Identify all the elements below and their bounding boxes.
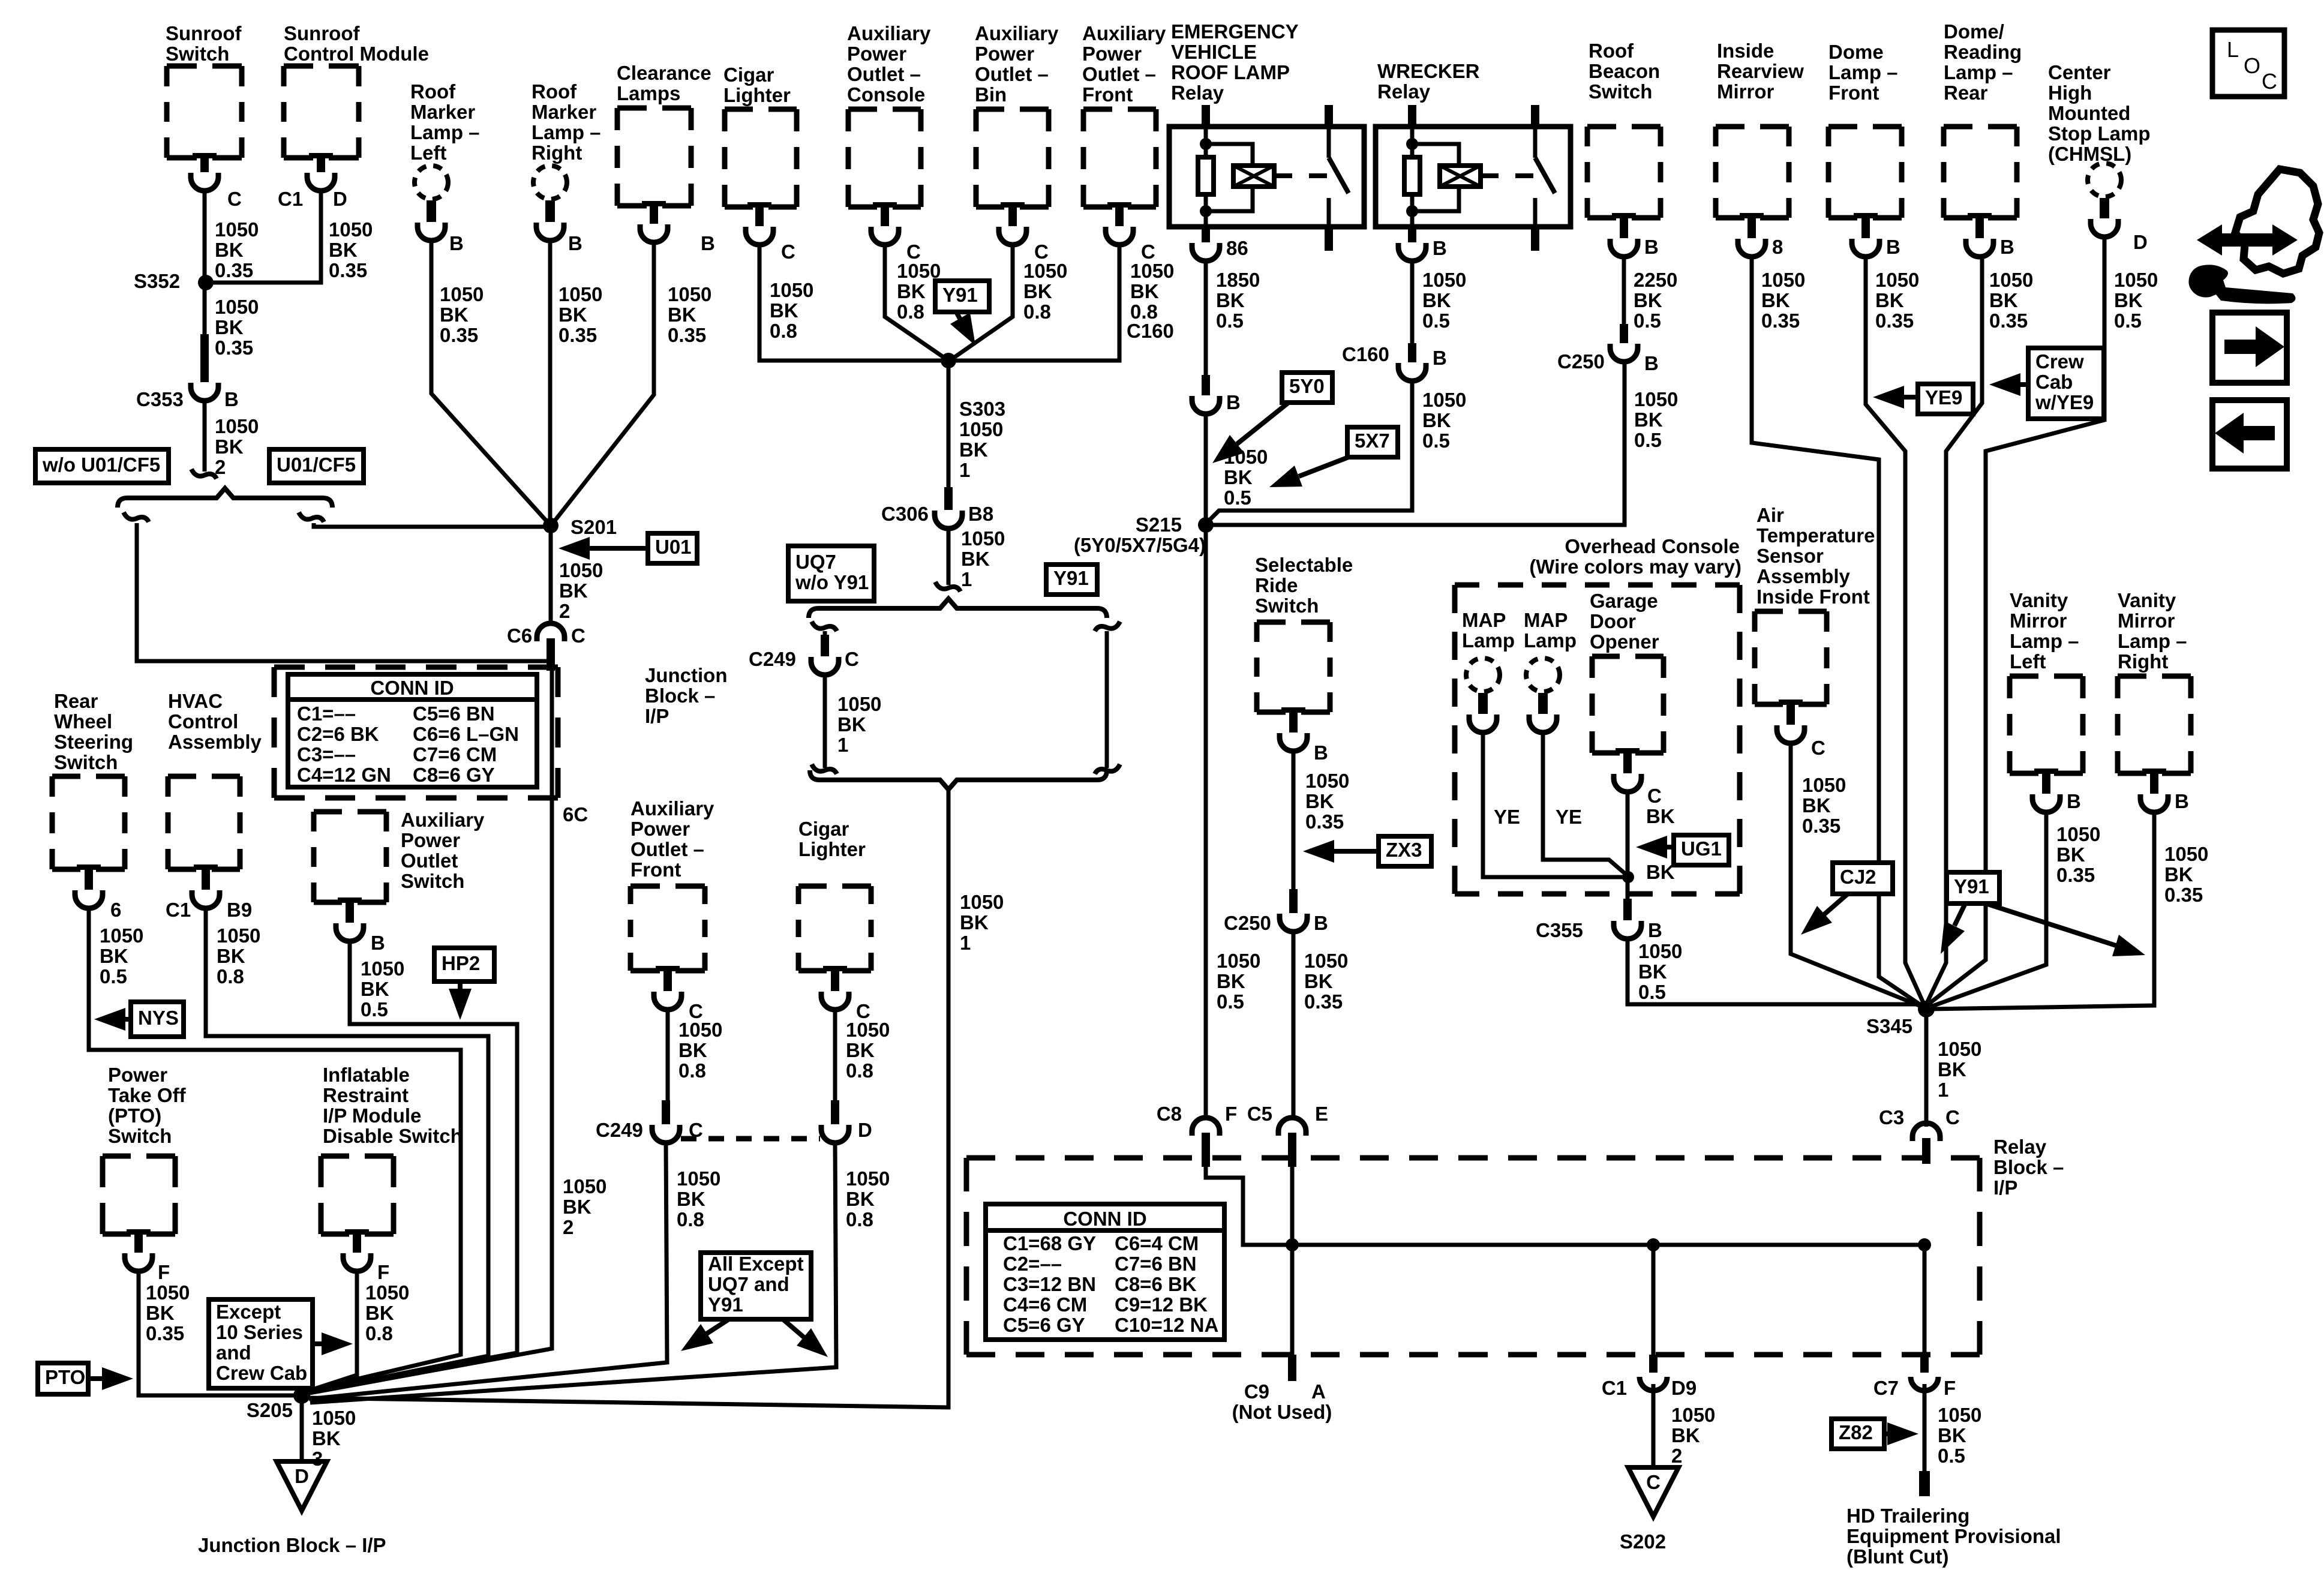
svg-text:C2=––: C2=–– <box>1003 1253 1062 1275</box>
svg-text:BK: BK <box>1875 289 1904 311</box>
svg-text:Lamp –: Lamp – <box>532 121 601 143</box>
svg-text:Y91: Y91 <box>942 284 978 306</box>
wire cigar lighter to S303 <box>759 245 947 361</box>
component Air Temperature Sensor Assembly Inside Front <box>1756 504 1875 608</box>
svg-text:1050: 1050 <box>215 218 259 241</box>
connector pin B wrecker relay <box>1398 227 1426 261</box>
connector pin B vanity mirror right <box>2140 769 2168 812</box>
svg-text:1050: 1050 <box>440 283 484 305</box>
svg-text:B: B <box>568 232 582 254</box>
svg-text:Sensor: Sensor <box>1756 545 1824 567</box>
svg-text:VEHICLE: VEHICLE <box>1171 41 1257 63</box>
svg-text:C3=––: C3=–– <box>297 743 356 766</box>
svg-text:Lamp –: Lamp – <box>410 121 480 143</box>
svg-text:MAP: MAP <box>1462 609 1506 631</box>
svg-text:0.5: 0.5 <box>1638 981 1666 1003</box>
svg-text:Switch: Switch <box>1589 80 1652 103</box>
svg-text:Control Module: Control Module <box>284 43 429 65</box>
svg-text:S352: S352 <box>134 270 180 292</box>
svg-text:1050: 1050 <box>329 218 373 241</box>
svg-text:Relay: Relay <box>1377 80 1431 103</box>
svg-text:Switch: Switch <box>401 870 464 892</box>
svg-text:Block –: Block – <box>645 685 715 707</box>
svg-text:BK: BK <box>2056 843 2085 866</box>
option label All Except UQ7 and Y91 with arrows <box>701 1253 811 1319</box>
svg-text:1050: 1050 <box>1304 950 1348 972</box>
svg-text:C7=6 BN: C7=6 BN <box>1115 1253 1197 1275</box>
wire garage door opener to C355 <box>1626 792 1630 899</box>
wire MAP lamp right to junction <box>1543 733 1626 875</box>
svg-text:C: C <box>1646 1471 1661 1493</box>
svg-text:C8=6 GY: C8=6 GY <box>413 764 495 786</box>
svg-text:Junction Block – I/P: Junction Block – I/P <box>198 1534 386 1556</box>
connector pin C aux power outlet front <box>1106 202 1133 245</box>
svg-text:C10=12 NA: C10=12 NA <box>1115 1314 1218 1336</box>
svg-text:C9=12 BK: C9=12 BK <box>1115 1293 1208 1316</box>
svg-text:BK: BK <box>563 1196 591 1218</box>
svg-text:Lamp: Lamp <box>1524 629 1577 652</box>
svg-text:0.5: 0.5 <box>1938 1445 1965 1467</box>
svg-text:1050: 1050 <box>1761 269 1805 291</box>
svg-text:CJ2: CJ2 <box>1840 866 1876 888</box>
connector pin B vanity mirror left <box>2032 769 2060 812</box>
svg-text:NYS: NYS <box>138 1007 179 1029</box>
svg-text:0.8: 0.8 <box>1023 301 1051 323</box>
component MAP Lamp left <box>1462 609 1515 652</box>
svg-text:Bin: Bin <box>975 83 1007 106</box>
component Cigar Lighter lower <box>798 818 866 860</box>
svg-text:BK: BK <box>440 304 469 326</box>
wire CHMSL to S345 <box>1925 237 2104 1007</box>
svg-text:1050: 1050 <box>846 1019 890 1041</box>
connector pin D CHMSL <box>2091 198 2118 237</box>
svg-text:BK: BK <box>1634 409 1663 431</box>
option split brace below C306 <box>935 582 960 592</box>
svg-text:B: B <box>1314 912 1328 934</box>
svg-text:Dome/: Dome/ <box>1944 20 2004 43</box>
svg-text:0.5: 0.5 <box>1216 310 1244 332</box>
component Garage Door Opener <box>1590 590 1659 653</box>
svg-text:Restraint: Restraint <box>323 1084 409 1106</box>
svg-text:Switch: Switch <box>1255 595 1319 617</box>
svg-text:0.35: 0.35 <box>329 259 367 281</box>
svg-text:BK: BK <box>146 1302 175 1324</box>
svg-text:Power: Power <box>975 43 1034 65</box>
svg-text:YE: YE <box>1556 806 1582 828</box>
svg-text:S205: S205 <box>247 1399 293 1421</box>
svg-text:Overhead Console: Overhead Console <box>1565 535 1740 557</box>
splice S215 <box>1198 517 1214 533</box>
svg-text:1050: 1050 <box>1671 1404 1715 1426</box>
svg-text:C160: C160 <box>1342 343 1389 365</box>
option label HP2 with arrow <box>434 948 494 981</box>
svg-text:1050: 1050 <box>1023 260 1067 282</box>
svg-text:1050: 1050 <box>1634 388 1678 410</box>
svg-text:Center: Center <box>2048 61 2111 83</box>
svg-text:YE9: YE9 <box>1925 386 1962 409</box>
svg-text:1050: 1050 <box>1422 389 1466 411</box>
svg-text:0.8: 0.8 <box>846 1059 873 1082</box>
wire B connector to S215 <box>1204 414 1208 525</box>
connector C5 pin E relay block <box>1278 1118 1306 1167</box>
svg-text:C353: C353 <box>136 388 184 410</box>
svg-text:(5Y0/5X7/5G4): (5Y0/5X7/5G4) <box>1074 534 1206 556</box>
svg-text:B: B <box>701 232 715 254</box>
svg-text:Left: Left <box>410 142 447 164</box>
junction dot internal C1 <box>1647 1238 1660 1251</box>
svg-text:UQ7: UQ7 <box>795 551 836 573</box>
svg-text:BK: BK <box>1217 970 1245 992</box>
connector C353 <box>191 334 218 401</box>
svg-text:0.5: 0.5 <box>1634 429 1662 451</box>
svg-text:1: 1 <box>961 568 972 590</box>
connector pin B selectable ride switch <box>1280 707 1307 751</box>
svg-text:Clearance: Clearance <box>617 62 711 84</box>
svg-text:0.35: 0.35 <box>2164 884 2203 906</box>
svg-text:BK: BK <box>215 436 244 458</box>
wire RWS switch to S205 <box>89 908 461 1393</box>
svg-text:Console: Console <box>847 83 925 106</box>
svg-text:Door: Door <box>1590 610 1636 632</box>
svg-text:3: 3 <box>312 1448 323 1470</box>
relay block I/P dashed outline <box>966 1158 1980 1355</box>
svg-text:C4=12 GN: C4=12 GN <box>297 764 391 786</box>
component Auxiliary Power Outlet Bin <box>975 22 1059 106</box>
wire dome lamp front to S345 <box>1866 257 1925 1007</box>
svg-text:0.35: 0.35 <box>1989 310 2028 332</box>
connector pin B clearance lamps <box>640 201 668 242</box>
svg-text:Beacon: Beacon <box>1589 60 1660 82</box>
svg-text:Outlet –: Outlet – <box>847 63 921 85</box>
wire aux outlet bin to S303 <box>950 245 1013 361</box>
svg-text:C6=6 L–GN: C6=6 L–GN <box>413 723 519 745</box>
svg-text:C1=––: C1=–– <box>297 703 356 725</box>
svg-text:Crew: Crew <box>2035 350 2084 373</box>
svg-text:1050: 1050 <box>146 1281 190 1304</box>
svg-text:HD Trailering: HD Trailering <box>1846 1505 1969 1527</box>
svg-text:6: 6 <box>110 899 121 921</box>
svg-text:BK: BK <box>1761 289 1790 311</box>
wire C7 F to blunt cut <box>1923 1384 1927 1473</box>
option label UG1 with arrow <box>1674 835 1729 865</box>
svg-text:0.5: 0.5 <box>1224 487 1251 509</box>
wire roof marker right to S201 <box>548 241 553 524</box>
svg-text:Lighter: Lighter <box>798 838 866 860</box>
svg-text:Stop Lamp: Stop Lamp <box>2048 122 2151 145</box>
relay Wrecker Relay <box>1377 60 1480 103</box>
svg-text:BK: BK <box>770 299 798 322</box>
svg-text:Mirror: Mirror <box>2010 610 2067 632</box>
svg-text:(Wire colors may vary): (Wire colors may vary) <box>1529 556 1742 578</box>
connector pin B aux power outlet switch <box>336 897 364 941</box>
svg-text:0.8: 0.8 <box>677 1208 704 1230</box>
svg-text:C5=6 GY: C5=6 GY <box>1003 1314 1085 1336</box>
wire S215 to roof beacon C250 <box>1206 362 1625 525</box>
svg-text:Assembly: Assembly <box>1756 565 1851 587</box>
svg-text:C5=6 BN: C5=6 BN <box>413 703 495 725</box>
svg-text:BK: BK <box>1216 289 1245 311</box>
connector pin B dome lamp front <box>1852 213 1879 257</box>
svg-text:1050: 1050 <box>1130 260 1174 282</box>
wire Y91 branch down <box>1095 622 1120 631</box>
svg-text:CONN ID: CONN ID <box>1063 1208 1146 1230</box>
wire dome reading lamp rear to S345 <box>1925 257 1982 1007</box>
svg-text:B: B <box>1644 236 1659 258</box>
wire C249 C to S205 <box>309 1143 667 1399</box>
svg-text:MAP: MAP <box>1524 609 1568 631</box>
svg-text:U01/CF5: U01/CF5 <box>277 454 356 476</box>
svg-text:C: C <box>1647 785 1662 807</box>
svg-text:Mirror: Mirror <box>2118 610 2175 632</box>
junction dot internal C5 <box>1286 1238 1299 1251</box>
svg-text:Lighter: Lighter <box>723 84 791 106</box>
svg-text:1050: 1050 <box>960 891 1004 913</box>
svg-text:Auxiliary: Auxiliary <box>847 22 931 44</box>
svg-text:C160: C160 <box>1127 320 1174 342</box>
svg-text:Lamp –: Lamp – <box>2010 630 2079 652</box>
svg-text:F: F <box>158 1261 170 1283</box>
svg-text:BK: BK <box>329 239 358 261</box>
svg-text:Mirror: Mirror <box>1717 80 1774 103</box>
connector C249 pin C lower <box>652 1100 680 1143</box>
svg-text:Garage: Garage <box>1590 590 1658 612</box>
wire junction block internal 6C down to S205 <box>310 671 552 1393</box>
wire clearance lamps to S201 <box>552 242 654 524</box>
svg-text:BK: BK <box>559 304 587 326</box>
connector C160 pin B <box>1398 343 1426 381</box>
svg-text:Sunroof: Sunroof <box>284 22 360 44</box>
wire aux outlet front lower to C249 <box>666 1010 670 1100</box>
relay Emergency Vehicle Roof Lamp Relay <box>1171 20 1299 104</box>
svg-text:BK: BK <box>312 1427 341 1449</box>
svg-text:1050: 1050 <box>2056 823 2100 845</box>
connector C1 pin D9 <box>1649 1355 1658 1373</box>
svg-text:1050: 1050 <box>1989 269 2033 291</box>
svg-text:1050: 1050 <box>1638 940 1682 962</box>
wire roof marker left to S201 <box>431 241 550 524</box>
component Inside Rearview Mirror <box>1717 40 1804 103</box>
svg-text:C3: C3 <box>1879 1106 1904 1128</box>
svg-text:Block –: Block – <box>1993 1156 2064 1178</box>
svg-text:I/P: I/P <box>645 705 669 727</box>
svg-text:2: 2 <box>563 1216 574 1238</box>
connector pin C cigar lighter <box>746 202 773 245</box>
svg-text:0.8: 0.8 <box>770 320 797 342</box>
svg-text:C7=6 CM: C7=6 CM <box>413 743 497 766</box>
svg-text:Ride: Ride <box>1255 574 1298 596</box>
svg-text:B: B <box>1314 742 1328 764</box>
svg-text:1050: 1050 <box>1875 269 1919 291</box>
LOC legend box <box>2212 30 2284 97</box>
svg-text:1050: 1050 <box>312 1407 356 1429</box>
svg-text:0.8: 0.8 <box>846 1208 873 1230</box>
svg-text:S202: S202 <box>1620 1530 1666 1553</box>
svg-text:1050: 1050 <box>215 296 259 318</box>
component Roof Marker Lamp Left <box>410 80 480 164</box>
component Auxiliary Power Outlet Switch <box>314 812 386 902</box>
wire MAP lamp left to junction <box>1483 733 1623 877</box>
svg-text:0.35: 0.35 <box>1875 310 1914 332</box>
svg-text:C: C <box>571 625 585 647</box>
connector C6 pin C junction block <box>537 623 565 671</box>
svg-text:C8: C8 <box>1157 1103 1182 1125</box>
svg-text:Rear: Rear <box>1944 82 1988 104</box>
blunt cut end <box>1919 1471 1930 1496</box>
svg-text:Sunroof: Sunroof <box>166 22 242 44</box>
svg-text:BK: BK <box>837 713 866 736</box>
svg-text:0.8: 0.8 <box>365 1322 393 1344</box>
svg-text:C6: C6 <box>507 625 532 647</box>
svg-text:B: B <box>2000 236 2014 258</box>
dashed connector link C249 <box>681 1136 820 1142</box>
svg-text:and: and <box>216 1341 251 1364</box>
service icon wrench with arrows <box>2188 169 2319 304</box>
connector MAP lamp right <box>1529 693 1557 733</box>
wire inflatable restraint switch to S205 <box>305 1271 357 1392</box>
wire cigar lighter lower to C249 <box>833 1010 837 1100</box>
connector pin B dome reading lamp rear <box>1966 213 1993 257</box>
wire aux outlet console to S303 <box>885 245 948 361</box>
svg-text:Y91: Y91 <box>708 1293 743 1316</box>
component Center High Mounted Stop Lamp CHMSL <box>2048 61 2151 165</box>
svg-text:Vanity: Vanity <box>2118 589 2176 611</box>
connector pin B9 HVAC <box>192 864 220 908</box>
svg-text:PTO: PTO <box>45 1366 85 1388</box>
option label U01 with arrow <box>648 533 697 563</box>
svg-text:C9: C9 <box>1244 1380 1269 1403</box>
svg-text:w/YE9: w/YE9 <box>2035 391 2094 413</box>
svg-text:Outlet –: Outlet – <box>975 63 1049 85</box>
connector pin C aux power outlet console <box>871 202 899 245</box>
svg-text:Inside: Inside <box>1717 40 1774 62</box>
svg-text:D: D <box>333 188 347 210</box>
svg-text:86: 86 <box>1226 237 1248 259</box>
svg-text:C: C <box>2262 69 2277 94</box>
component Auxiliary Power Outlet Console <box>847 22 931 106</box>
svg-text:BK: BK <box>2114 289 2143 311</box>
svg-text:1050: 1050 <box>217 924 260 947</box>
component Auxiliary Power Outlet Front lower <box>630 797 714 881</box>
svg-text:D: D <box>295 1465 309 1487</box>
svg-text:BK: BK <box>1938 1424 1966 1446</box>
junction block I/P dashed outline <box>274 667 558 798</box>
splice S303 <box>941 353 956 368</box>
svg-text:Dome: Dome <box>1828 41 1884 63</box>
svg-text:0.35: 0.35 <box>146 1322 184 1344</box>
svg-text:BK: BK <box>1422 409 1451 431</box>
svg-text:Vanity: Vanity <box>2010 589 2068 611</box>
svg-text:(Blunt Cut): (Blunt Cut) <box>1846 1545 1948 1568</box>
component HVAC Control Assembly <box>168 690 262 753</box>
wire internal to C7 <box>1923 1245 1927 1357</box>
wire C355 to S345 <box>1628 939 1925 1004</box>
svg-text:BK: BK <box>1646 805 1675 827</box>
wire roof beacon to C250 <box>1622 257 1626 324</box>
wire option branch w/o U01/CF5 to C6 pin <box>124 512 149 522</box>
svg-text:C250: C250 <box>1557 350 1605 373</box>
option label ZX3 with arrow <box>1379 836 1431 866</box>
wire C353 to option brace <box>203 401 207 472</box>
connector pin C air temperature sensor <box>1777 700 1804 743</box>
svg-text:YE: YE <box>1494 806 1520 828</box>
svg-text:D9: D9 <box>1671 1377 1697 1399</box>
wire relay block internal C5 to C9 <box>1290 1164 1295 1357</box>
option label w/o U01/CF5 <box>35 449 169 483</box>
svg-text:B: B <box>1433 347 1447 369</box>
svg-text:F: F <box>1225 1103 1237 1125</box>
connector C249 pin D lower <box>821 1100 849 1143</box>
svg-text:0.35: 0.35 <box>2056 864 2095 886</box>
option label 5Y0 with arrow <box>1282 373 1332 403</box>
svg-text:BK: BK <box>961 548 990 570</box>
svg-text:Y91: Y91 <box>1053 567 1089 589</box>
connector pin C of sunroof switch <box>191 153 218 191</box>
svg-text:Right: Right <box>532 142 582 164</box>
svg-text:EMERGENCY: EMERGENCY <box>1171 20 1299 43</box>
svg-text:B8: B8 <box>968 503 993 525</box>
svg-text:Equipment Provisional: Equipment Provisional <box>1846 1525 2061 1547</box>
component Auxiliary Power Outlet Front <box>1082 22 1166 106</box>
svg-text:BK: BK <box>897 280 926 302</box>
svg-text:I/P Module: I/P Module <box>323 1104 421 1127</box>
component Vanity Mirror Lamp Right <box>2118 589 2187 673</box>
option label 5X7 with arrow <box>1347 427 1398 457</box>
svg-text:0.35: 0.35 <box>1305 810 1344 833</box>
svg-text:0.35: 0.35 <box>1802 815 1840 837</box>
svg-text:Temperature: Temperature <box>1756 524 1875 547</box>
back arrow box <box>2212 400 2287 469</box>
wire S215 down to C8 <box>1204 525 1208 1117</box>
svg-text:C8=6 BK: C8=6 BK <box>1115 1273 1197 1295</box>
svg-text:C7: C7 <box>1873 1377 1899 1399</box>
svg-text:0.5: 0.5 <box>361 998 388 1020</box>
wire option branch U01/CF5 to S201 <box>299 512 324 522</box>
connector pin C garage door opener <box>1614 748 1641 792</box>
svg-text:0.8: 0.8 <box>678 1059 706 1082</box>
svg-text:B: B <box>1433 237 1447 259</box>
svg-text:Relay: Relay <box>1993 1136 2047 1158</box>
connector C355 pin B <box>1614 899 1641 939</box>
svg-text:S303: S303 <box>959 398 1005 420</box>
svg-text:Power: Power <box>847 43 906 65</box>
connector pin 8 inside rearview mirror <box>1738 213 1765 257</box>
svg-text:CONN ID: CONN ID <box>370 677 454 699</box>
wire selectable ride to C250 <box>1292 751 1296 889</box>
wire C249 D to S205 <box>310 1143 836 1403</box>
splice S352 <box>198 275 214 290</box>
connector MAP lamp left <box>1469 693 1497 733</box>
svg-text:S345: S345 <box>1866 1015 1912 1037</box>
svg-text:1050: 1050 <box>1938 1404 1981 1426</box>
wire S345 to C3 <box>1924 1009 1929 1127</box>
svg-text:BK: BK <box>100 945 128 967</box>
connector pin B roof beacon switch <box>1610 213 1638 257</box>
svg-text:Lamp: Lamp <box>1462 629 1515 652</box>
svg-text:Rearview: Rearview <box>1717 60 1804 82</box>
svg-text:(CHMSL): (CHMSL) <box>2048 143 2131 165</box>
wire sunroof control module to S352 <box>206 191 321 283</box>
svg-text:Lamp –: Lamp – <box>1828 61 1898 83</box>
svg-text:D: D <box>2133 231 2148 253</box>
svg-text:High: High <box>2048 82 2092 104</box>
svg-text:1050: 1050 <box>1217 950 1260 972</box>
option label NYS with arrow <box>131 1002 184 1037</box>
wire aux outlet front to S303 <box>950 245 1119 361</box>
svg-text:Crew Cab: Crew Cab <box>216 1362 307 1384</box>
connector C250 pin B roof beacon <box>1610 324 1638 362</box>
component Sunroof Switch <box>166 22 242 65</box>
svg-text:(PTO): (PTO) <box>108 1104 161 1127</box>
